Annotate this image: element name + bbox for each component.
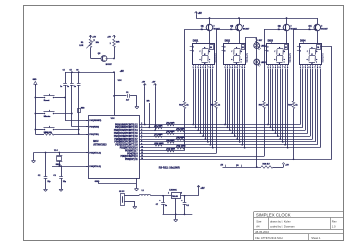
- 7-segment display DIS1: [190, 40, 218, 69]
- bus row 6 with resistor R8: [139, 137, 313, 140]
- wire U1 VCC pin: [113, 71, 124, 116]
- svg-text:BC327: BC327: [321, 29, 328, 31]
- title row file: [255, 236, 321, 240]
- resistor R13 (Q1 base): [179, 29, 189, 150]
- wire +5V rail left: [65, 71, 114, 73]
- svg-text:9: 9: [141, 144, 142, 146]
- svg-text:C5: C5: [70, 70, 72, 72]
- wire main supply line: [124, 195, 198, 197]
- svg-text:0.1: 0.1: [186, 205, 188, 207]
- svg-text:PD2(INT0/XCK) 6: PD2(INT0/XCK) 6: [120, 148, 139, 150]
- svg-text:e: e: [307, 59, 308, 61]
- wire U1 ground pin: [99, 178, 137, 189]
- svg-text:BC337: BC337: [106, 64, 112, 66]
- svg-text:MCU: MCU: [93, 141, 99, 143]
- resistor R16 (Q4 base): [288, 29, 298, 159]
- button S3 Hour: [35, 126, 79, 134]
- svg-text:SIMPLEX CLOCK: SIMPLEX CLOCK: [256, 212, 291, 217]
- svg-text:1n: 1n: [74, 86, 76, 88]
- wire bundle from DIS1 pins to segment bus: [192, 65, 213, 149]
- svg-text:+5V: +5V: [200, 188, 205, 190]
- bus row 10 with resistor R12 to Q1 base: [139, 149, 185, 152]
- resistor R18 colon: [261, 163, 273, 169]
- power flag +5V top rail: [195, 12, 203, 16]
- ground PSU: [174, 220, 178, 222]
- svg-text:LED1: LED1: [261, 46, 266, 48]
- svg-text:PB7(SCK/PCINT7) 19: PB7(SCK/PCINT7) 19: [115, 145, 138, 147]
- 7-segment display DIS2: [222, 40, 250, 69]
- svg-text:+5V: +5V: [107, 37, 111, 39]
- svg-text:10: 10: [317, 47, 319, 49]
- svg-text:R8 100R: R8 100R: [177, 137, 185, 139]
- power flag +5V colon: [282, 163, 289, 167]
- capacitor C2: [38, 153, 51, 190]
- wire bundle from DIS4 pins to segment bus: [301, 65, 321, 148]
- svg-text:13: 13: [141, 155, 143, 157]
- ground crystal: [32, 153, 36, 163]
- svg-text:5161AS: 5161AS: [245, 53, 249, 63]
- svg-text:PA2(RESET): PA2(RESET): [89, 119, 101, 122]
- wire C1 branch: [113, 95, 137, 106]
- svg-text:R17: R17: [259, 40, 262, 42]
- title block frame: [254, 212, 344, 241]
- svg-text:PD4(T0) 8: PD4(T0) 8: [127, 152, 138, 155]
- svg-text:C2: C2: [38, 175, 40, 177]
- svg-text:8: 8: [193, 50, 194, 52]
- bus row 9 with resistor R11: [139, 146, 320, 149]
- svg-text:C6: C6: [76, 70, 78, 72]
- bus row 5 with resistor R7: [139, 134, 310, 137]
- svg-text:(76: (76: [236, 165, 238, 167]
- wire XTAL1 net: [52, 165, 88, 167]
- title row a4: [256, 225, 336, 229]
- svg-text:(75: (75: [221, 165, 223, 167]
- svg-text:8MHz: 8MHz: [56, 164, 61, 166]
- svg-text:R7 100R: R7 100R: [155, 134, 163, 136]
- svg-text:7: 7: [141, 138, 142, 140]
- svg-text:PA0(XTAL1): PA0(XTAL1): [89, 165, 101, 168]
- svg-text:R3-R12: 10x100R: R3-R12: 10x100R: [159, 165, 180, 169]
- svg-text:Q5: Q5: [98, 53, 101, 55]
- svg-text:R15: R15: [259, 105, 262, 107]
- svg-text:2: 2: [291, 26, 292, 28]
- transistor Q4 (PNP digit driver): [294, 18, 329, 44]
- svg-text:R13: R13: [179, 105, 182, 107]
- svg-text:C7: C7: [156, 204, 158, 206]
- svg-text:LM2931: LM2931: [169, 189, 177, 191]
- LED LED1 (colon): [254, 43, 266, 50]
- svg-text:c: c: [284, 59, 285, 61]
- bus row 13 to Q4 base: [139, 158, 332, 160]
- svg-text:3: 3: [141, 126, 142, 128]
- button S2 Minute: [35, 110, 72, 118]
- svg-text:2: 2: [141, 123, 142, 125]
- svg-text:DIS1: DIS1: [193, 40, 199, 43]
- svg-text:PB6(MISO/PCINT6) 18: PB6(MISO/PCINT6) 18: [114, 142, 138, 144]
- capacitor C3: [53, 166, 66, 189]
- svg-text:VCC: VCC: [118, 80, 123, 82]
- svg-text:10: 10: [285, 47, 287, 49]
- svg-text:DIS3: DIS3: [268, 40, 274, 43]
- svg-text:PD0(RXD): PD0(RXD): [89, 127, 99, 129]
- svg-text:PB1(AIN1/PCINT1) 13: PB1(AIN1/PCINT1) 13: [115, 126, 138, 129]
- wire J1 pin2 to ground: [124, 201, 135, 206]
- wire DIS4 dp to bus: [321, 47, 332, 160]
- wire colon supply: [223, 167, 284, 169]
- svg-text:R18 4k7: R18 4k7: [263, 163, 270, 166]
- svg-text:28-05-2016: 28-05-2016: [255, 230, 269, 234]
- svg-text:R1: R1: [81, 42, 83, 44]
- svg-text:ATTINY2313: ATTINY2313: [93, 143, 107, 146]
- svg-text:c: c: [209, 59, 210, 61]
- svg-text:c: c: [241, 59, 242, 61]
- title text SIMPLEX CLOCK: [256, 212, 291, 217]
- net label MR wire: [147, 101, 151, 129]
- svg-text:Reset: Reset: [44, 99, 50, 102]
- wire bundle from DIS3 pins to segment bus: [267, 65, 288, 149]
- wire ground stub: [175, 214, 177, 219]
- bus row 4 with resistor R6: [139, 131, 308, 134]
- capacitor C6 / wire to U1: [74, 72, 81, 134]
- svg-text:Rev: Rev: [332, 219, 337, 223]
- svg-text:Minute: Minute: [44, 115, 51, 118]
- 7-segment display DIS4: [297, 40, 325, 69]
- resistor R18 reset line: [35, 132, 88, 135]
- wire button column: [34, 84, 36, 134]
- power flag +5V to bus: [142, 82, 147, 126]
- title row date: [255, 230, 269, 234]
- svg-text:File: ATTINY2313.SCH: File: ATTINY2313.SCH: [255, 236, 282, 240]
- resistor R17 (colon): [256, 38, 262, 43]
- svg-text:DIS4: DIS4: [300, 40, 306, 43]
- svg-text:C1: C1: [126, 92, 128, 94]
- svg-text:6: 6: [141, 135, 142, 137]
- svg-text:+5V: +5V: [92, 37, 96, 39]
- bus row 8 with resistor R10: [139, 143, 318, 146]
- svg-text:Sheet 1: Sheet 1: [311, 236, 321, 240]
- svg-text:5161AS: 5161AS: [288, 53, 292, 63]
- capacitor C7: [156, 196, 167, 215]
- svg-text:e: e: [231, 59, 232, 61]
- ground C1: [135, 107, 139, 109]
- svg-text:10: 10: [210, 47, 212, 49]
- title row size: [256, 219, 337, 223]
- svg-text:DIS2: DIS2: [225, 40, 231, 43]
- label C5: [70, 70, 72, 72]
- crystal Y1: [54, 150, 62, 166]
- wire ground rail: [163, 214, 193, 216]
- svg-text:8: 8: [224, 50, 225, 52]
- capacitor C1: [126, 92, 130, 101]
- svg-text:3: 3: [224, 46, 225, 48]
- svg-text:e: e: [274, 59, 275, 61]
- svg-text:PD5(OC0B/T1) 9: PD5(OC0B/T1) 9: [120, 156, 138, 158]
- svg-text:coded by I. Dowman: coded by I. Dowman: [270, 225, 295, 229]
- svg-text:e: e: [199, 59, 200, 61]
- svg-text:drawn by I. Kolev: drawn by I. Kolev: [270, 219, 291, 223]
- svg-text:GND: GND: [95, 181, 100, 183]
- svg-text:PB2(OC0A/PCINT2) 14: PB2(OC0A/PCINT2) 14: [114, 129, 138, 132]
- svg-text:R9 100R: R9 100R: [167, 140, 175, 142]
- IC U1 microcontroller ATTINY2313: [86, 116, 143, 179]
- svg-text:PB5(MOSI/PCINT5) 17: PB5(MOSI/PCINT5) 17: [114, 139, 138, 141]
- ground C2: [44, 189, 48, 191]
- transistor Q1 (PNP digit driver): [185, 17, 221, 43]
- svg-text:8: 8: [267, 50, 268, 52]
- power flag +5V for LDR: [89, 35, 96, 38]
- svg-text:8: 8: [300, 50, 301, 52]
- svg-text:c: c: [316, 59, 317, 61]
- svg-text:R10 100R: R10 100R: [155, 143, 165, 145]
- wire bundle from DIS2 pins to segment bus: [224, 65, 245, 149]
- bus row 1 with resistor R3: [139, 123, 300, 126]
- svg-text:LED2: LED2: [261, 62, 266, 64]
- svg-text:4n7: 4n7: [126, 99, 129, 102]
- power flag +5V for R2: [107, 35, 115, 38]
- inductor L1: [139, 190, 150, 196]
- svg-text:BC327: BC327: [243, 29, 250, 31]
- net tick 75: [221, 165, 226, 167]
- svg-text:C3: C3: [53, 175, 55, 177]
- svg-text:10: 10: [242, 47, 244, 49]
- LED LED2 (colon): [254, 59, 266, 66]
- resistor R14 (Q2 base): [211, 29, 221, 153]
- svg-text:1n: 1n: [60, 86, 62, 88]
- connector J1 DC jack: [119, 191, 125, 205]
- svg-text:PB0(AIN0/PCINT0) 12: PB0(AIN0/PCINT0) 12: [115, 123, 138, 126]
- svg-text:PA1(XTAL2): PA1(XTAL2): [89, 151, 101, 154]
- net tick 76: [236, 165, 241, 167]
- svg-text:J1 DC: J1 DC: [119, 191, 125, 193]
- svg-text:R16: R16: [288, 105, 291, 107]
- svg-text:VCC: VCC: [111, 118, 116, 120]
- svg-text:3: 3: [300, 46, 301, 48]
- ferrite bead FB1 on reset line: [78, 108, 86, 113]
- label VCC: [118, 80, 123, 82]
- svg-text:A4: A4: [256, 225, 260, 229]
- bus row 11 to Q2 base: [139, 153, 216, 155]
- LDR R1: [79, 39, 99, 48]
- svg-text:PD6(ICP) 11: PD6(ICP) 11: [125, 159, 138, 161]
- svg-text:LDR: LDR: [79, 45, 84, 47]
- svg-text:R5 100R: R5 100R: [177, 128, 185, 130]
- svg-text:1: 1: [110, 43, 111, 45]
- svg-text:R6 100R: R6 100R: [167, 131, 175, 133]
- svg-text:PD1(TXD): PD1(TXD): [89, 134, 99, 136]
- svg-text:+5V: +5V: [120, 71, 125, 73]
- bus row 2 with resistor R4: [139, 124, 303, 128]
- svg-text:2: 2: [214, 26, 215, 28]
- bus row 3 with resistor R5: [139, 128, 305, 131]
- svg-text:3: 3: [181, 193, 182, 195]
- svg-text:78L05: 78L05: [172, 196, 179, 198]
- button S1 Reset: [35, 94, 66, 102]
- bus row 12 to Q3 base: [139, 156, 264, 158]
- wire colon feed: [246, 37, 258, 168]
- svg-text:12: 12: [141, 152, 143, 154]
- svg-text:10: 10: [141, 146, 143, 148]
- wire R2 down to U1 VCC: [114, 48, 116, 59]
- label C6: [76, 70, 78, 72]
- svg-text:Size: Size: [256, 219, 262, 223]
- svg-text:3: 3: [267, 46, 268, 48]
- ground J1: [133, 207, 137, 209]
- capacitor C5 / wire to U1: [67, 72, 88, 127]
- wire LDR to Q5 base: [91, 48, 101, 59]
- svg-text:5: 5: [141, 132, 142, 134]
- svg-text:11: 11: [141, 149, 143, 151]
- svg-text:8: 8: [141, 141, 142, 143]
- transistor Q5: [98, 53, 115, 66]
- svg-text:1n: 1n: [67, 86, 69, 88]
- bus row 7 with resistor R9: [139, 140, 315, 143]
- svg-text:1.0: 1.0: [332, 225, 336, 229]
- svg-text:1u: 1u: [165, 205, 167, 207]
- svg-text:R18 10k: R18 10k: [45, 132, 52, 134]
- svg-text:2: 2: [321, 26, 322, 28]
- wire XTAL2 net: [34, 152, 89, 154]
- transistor Q3 (PNP digit driver): [264, 17, 298, 43]
- 7-segment display DIS3: [265, 40, 293, 69]
- svg-text:R12 100R: R12 100R: [167, 149, 176, 151]
- svg-text:3: 3: [193, 46, 194, 48]
- power flag +5V output: [197, 185, 205, 195]
- svg-text:PD3(INT1) 7: PD3(INT1) 7: [125, 150, 138, 152]
- svg-text:PB3(OC1A/PCINT3) 15: PB3(OC1A/PCINT3) 15: [114, 132, 138, 135]
- svg-text:R3 100R: R3 100R: [167, 123, 175, 125]
- svg-text:+5V: +5V: [198, 13, 203, 15]
- ground C3: [59, 189, 63, 191]
- svg-text:PB4(OC1B/PCINT4) 16: PB4(OC1B/PCINT4) 16: [114, 135, 138, 138]
- power flag +5V to bus: [152, 82, 157, 132]
- label R3-R12 10x100R: [159, 165, 180, 169]
- svg-text:C4: C4: [63, 69, 65, 72]
- svg-text:L1: L1: [142, 190, 144, 192]
- power flag buttons: [33, 79, 38, 86]
- ground U1: [95, 181, 139, 191]
- capacitor C4 / wire to U1: [60, 72, 88, 120]
- capacitor C8: [181, 196, 189, 215]
- resistor R15 (Q3 base): [259, 29, 269, 156]
- svg-text:2: 2: [243, 26, 244, 28]
- svg-text:1: 1: [168, 193, 169, 195]
- wire +5V top rail: [196, 15, 317, 19]
- svg-text:5161AS: 5161AS: [321, 53, 325, 63]
- regulator U2: [168, 189, 182, 214]
- transistor Q2 (PNP digit driver): [216, 17, 250, 43]
- label C4: [63, 69, 65, 72]
- resistor R2: [110, 39, 120, 48]
